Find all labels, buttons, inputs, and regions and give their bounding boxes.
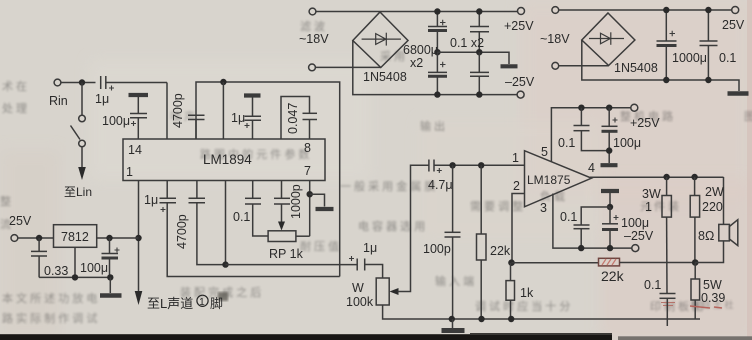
terminal AC1 bottom bbox=[309, 64, 316, 71]
arrow W wiper bbox=[390, 288, 399, 295]
node mid rail left bbox=[434, 49, 440, 55]
svg-text:+25V: +25V bbox=[504, 19, 534, 33]
capacitor C23 100u pos rail bbox=[608, 108, 610, 126]
wire ground to C4 bbox=[252, 98, 254, 117]
node output R4 tap bbox=[663, 174, 669, 180]
svg-text:22k: 22k bbox=[601, 268, 625, 284]
node 100p gnd bbox=[449, 316, 455, 322]
node 100p tap bbox=[449, 162, 455, 168]
terminal Rin bbox=[54, 79, 61, 86]
resistor R3 22k feedback bbox=[599, 258, 620, 266]
capacitor C7 4700p bbox=[189, 197, 206, 199]
terminal AC2 bottom bbox=[552, 62, 559, 69]
capacitor C20 4.7u bbox=[428, 160, 430, 172]
svg-text:0.1: 0.1 bbox=[644, 278, 661, 292]
switch S1 contact bottom bbox=[79, 140, 86, 147]
capacitor C1 1u input bbox=[100, 76, 102, 89]
capacitor C18 1000u bbox=[665, 10, 667, 41]
svg-text:1N5408: 1N5408 bbox=[614, 61, 658, 75]
svg-text:100p: 100p bbox=[423, 242, 451, 256]
wire pin7 to ground bbox=[310, 194, 325, 206]
svg-text:4.7μ: 4.7μ bbox=[428, 178, 453, 192]
node plus rail c16 bbox=[476, 8, 482, 14]
arrow RP wiper bbox=[278, 222, 285, 231]
wire pin 5 to +rail bbox=[551, 108, 630, 162]
svg-text:4700p: 4700p bbox=[175, 214, 189, 249]
svg-text:W: W bbox=[352, 281, 364, 295]
svg-text:100μ: 100μ bbox=[621, 216, 649, 230]
svg-text:至L声道: 至L声道 bbox=[147, 296, 193, 311]
svg-text:0.047: 0.047 bbox=[286, 103, 300, 134]
svg-text:25V: 25V bbox=[9, 214, 32, 228]
wire 25V to 7812 bbox=[18, 237, 54, 239]
capacitor C11 100u bbox=[109, 238, 111, 253]
svg-text:~18V: ~18V bbox=[540, 32, 570, 46]
wire down to ground bbox=[109, 277, 111, 293]
svg-text:1N5408: 1N5408 bbox=[363, 70, 407, 84]
wire top rail 2 (pins 12/11, to output loop) bbox=[196, 82, 340, 277]
node 100u pos tap bbox=[606, 105, 612, 111]
wire pin 5 to C8 bbox=[252, 181, 254, 199]
wire plus rail supply2 bbox=[559, 9, 732, 11]
node minus rail c15 bbox=[434, 91, 440, 97]
node input junction bbox=[79, 79, 85, 85]
red underline marks 0.39 bbox=[690, 306, 722, 308]
svg-text:整: 整 bbox=[0, 194, 11, 208]
node speaker fb junction bbox=[692, 259, 699, 266]
node minus rail c17 bbox=[476, 91, 482, 97]
svg-text:处 理: 处 理 bbox=[2, 102, 27, 115]
wire C9 to wiper arrow bbox=[281, 204, 283, 222]
node 0.1 neg tap bbox=[578, 245, 584, 251]
node c18 top bbox=[663, 7, 669, 13]
svg-text:输 入 端: 输 入 端 bbox=[435, 274, 474, 288]
capacitor C16 0.1 upper bbox=[478, 12, 480, 27]
wire C4 to pin 10 bbox=[252, 120, 254, 139]
svg-text:14: 14 bbox=[128, 143, 142, 157]
terminal -25V bbox=[517, 91, 524, 98]
svg-text:–25V: –25V bbox=[505, 75, 535, 89]
svg-text:3: 3 bbox=[540, 201, 547, 215]
wire C8 to RP left bbox=[253, 204, 268, 236]
svg-text:7812: 7812 bbox=[61, 230, 89, 244]
wire pin 2 jog bbox=[512, 194, 525, 263]
terminal AC1 top ~18V bbox=[309, 8, 316, 15]
node pin7 junction bbox=[307, 191, 313, 197]
svg-text:220: 220 bbox=[702, 200, 723, 214]
op-amp U3 LM1875 body bbox=[525, 151, 592, 207]
wire ground to C2 bbox=[137, 97, 139, 113]
wire pin7 to RP right bbox=[296, 235, 310, 237]
node 100u neg tap bbox=[607, 245, 613, 251]
svg-text:LM1875: LM1875 bbox=[527, 173, 571, 187]
resistor R4 3W 1 bbox=[666, 177, 668, 196]
capacitor C14 6800u upper bbox=[436, 12, 438, 27]
node 100u junction bbox=[106, 235, 112, 241]
wire C2 to pin 14 bbox=[137, 118, 139, 139]
wire AC bottom to bridge bbox=[315, 66, 380, 68]
node fb junction bbox=[508, 259, 515, 266]
node output R5 tap bbox=[691, 174, 697, 180]
svg-text:1: 1 bbox=[126, 165, 133, 179]
wire C6 to bottom loop rail bbox=[167, 203, 340, 277]
wire output rail to C13 bbox=[226, 264, 358, 266]
wire cap to pin13 drop bbox=[106, 82, 167, 84]
wire Rin to junction bbox=[61, 82, 96, 84]
wire C3 to pin 12 bbox=[195, 120, 197, 140]
wire drop to pin 13 bbox=[166, 83, 168, 140]
svg-text:5W: 5W bbox=[703, 278, 722, 292]
capacitor C9 1000p bbox=[274, 197, 290, 199]
resistor R5 2W 220 bbox=[694, 177, 696, 196]
bridge rectifier D2 1N5408 bbox=[582, 13, 635, 66]
capacitor C19 0.1 bbox=[707, 10, 709, 41]
node C11 gnd bbox=[107, 274, 113, 280]
svg-text:1000p: 1000p bbox=[289, 184, 303, 219]
wire bridge2 left corner to gnd rail bbox=[582, 40, 739, 91]
svg-text:x2: x2 bbox=[410, 56, 423, 70]
capacitor C5 0.047 loop pins 9-8 bbox=[281, 97, 310, 140]
node c18 bottom bbox=[663, 77, 669, 83]
svg-text:4: 4 bbox=[588, 161, 595, 175]
svg-text:+25V: +25V bbox=[630, 116, 660, 130]
ground main bbox=[442, 328, 465, 333]
capacitor C2 100u bbox=[130, 113, 147, 115]
potentiometer W 100k body bbox=[376, 278, 389, 305]
ground 7812 bbox=[100, 293, 122, 298]
wire junction to pin 11 bbox=[222, 82, 224, 139]
regulator U2 7812 body bbox=[54, 225, 97, 248]
node 0.1 pos tap bbox=[578, 105, 584, 111]
svg-text:8Ω: 8Ω bbox=[698, 229, 714, 243]
capacitor C24 0.1 neg rail bbox=[581, 207, 610, 225]
svg-text:0.33: 0.33 bbox=[44, 264, 68, 278]
svg-text:0.1: 0.1 bbox=[719, 51, 736, 65]
node pin1/7812 junction bbox=[135, 235, 141, 241]
ground at pin7 bbox=[316, 207, 334, 211]
capacitor C15 6800u lower bbox=[440, 62, 446, 68]
capacitor C21 100p bbox=[452, 165, 454, 232]
arrow to Lin bbox=[78, 167, 86, 180]
svg-text:耐 压 值: 耐 压 值 bbox=[300, 240, 339, 253]
capacitor C22 0.1 pos rail bbox=[580, 108, 582, 126]
wire speaker top lead bbox=[723, 177, 725, 224]
wire pin 7 down bbox=[309, 181, 311, 237]
svg-text:1: 1 bbox=[645, 200, 652, 214]
svg-text:7: 7 bbox=[304, 164, 311, 178]
capacitor C10 0.33 bbox=[38, 238, 40, 251]
wire 22k fb to speaker node bbox=[620, 262, 696, 264]
svg-text:1: 1 bbox=[199, 296, 205, 308]
capacitor C26 0.1 zobel bbox=[660, 293, 676, 295]
svg-text:0.1 x2: 0.1 x2 bbox=[450, 36, 484, 50]
svg-text:–25V: –25V bbox=[624, 229, 654, 243]
wire pin 1 down to L-channel arrow bbox=[138, 181, 140, 293]
svg-text:输 出: 输 出 bbox=[420, 119, 445, 133]
svg-text:2: 2 bbox=[513, 179, 520, 193]
node 22k gnd bbox=[478, 316, 484, 322]
wire switch to arrow bbox=[81, 147, 83, 168]
switch S1 lever bbox=[71, 126, 81, 140]
wire pin 3 to C7 bbox=[196, 181, 198, 199]
svg-text:0.39: 0.39 bbox=[701, 291, 725, 305]
ground above C4 bbox=[244, 93, 261, 97]
svg-text:100k: 100k bbox=[346, 295, 374, 309]
wire bridge left corner to minus rail bbox=[353, 41, 517, 95]
ground above C2 bbox=[129, 93, 149, 97]
wire pin 4 down bbox=[225, 181, 227, 265]
svg-text:1μ: 1μ bbox=[144, 193, 158, 207]
wire mid rail to ground bbox=[437, 52, 509, 64]
node mid rail right bbox=[476, 49, 482, 55]
node 0.33 junction bbox=[36, 235, 42, 241]
svg-text:调 试 时 应 当 十 分: 调 试 时 应 当 十 分 bbox=[475, 299, 570, 313]
capacitor C17 0.1 lower bbox=[478, 52, 480, 72]
potentiometer RP 1k body bbox=[268, 231, 296, 242]
svg-text:1μ: 1μ bbox=[231, 111, 245, 125]
black scan band bottom left bbox=[0, 334, 612, 340]
svg-text:~18V: ~18V bbox=[299, 32, 329, 46]
wire 4.7u to pin1 bbox=[434, 164, 525, 166]
wire wiper to 4.7u bbox=[398, 165, 429, 291]
wire pin 3 to -rail bbox=[553, 194, 632, 249]
terminal +25V bbox=[518, 8, 525, 15]
arrow to L channel pin1 bbox=[135, 291, 143, 305]
ground supply2 bbox=[728, 91, 749, 96]
svg-text:6800μ: 6800μ bbox=[403, 43, 438, 57]
svg-text:1: 1 bbox=[512, 151, 519, 165]
svg-text:1k: 1k bbox=[520, 286, 534, 300]
bridge rectifier D1 1N5408 bbox=[353, 12, 408, 68]
svg-text:22k: 22k bbox=[490, 244, 511, 258]
node 7812 gnd bbox=[72, 274, 78, 280]
terminal AC2 top ~18V bbox=[552, 7, 559, 14]
wire C13 to pot W bbox=[365, 265, 383, 279]
svg-text:RP 1k: RP 1k bbox=[269, 247, 304, 261]
wire plus rail supply1 bbox=[316, 11, 518, 13]
resistor R6 5W 0.39 bbox=[694, 263, 696, 280]
capacitor C4 1u bbox=[245, 115, 262, 117]
wire gnd stub bbox=[452, 319, 454, 328]
node pin4 output junction bbox=[222, 261, 228, 267]
svg-text:3W: 3W bbox=[642, 187, 661, 201]
wire pot W bottom to gnd rail bbox=[383, 305, 700, 319]
ground supply1 bbox=[501, 64, 518, 68]
resistor R2 1k bbox=[510, 263, 512, 281]
terminal 25V input bbox=[11, 235, 18, 242]
svg-text:5: 5 bbox=[541, 145, 548, 159]
terminal -25V amp bbox=[632, 245, 639, 252]
terminal 25V out bbox=[732, 7, 739, 14]
node 22k tap bbox=[478, 162, 484, 168]
ground pos rail bbox=[601, 163, 618, 167]
svg-text:100μ: 100μ bbox=[613, 136, 641, 150]
svg-text:100μ: 100μ bbox=[102, 114, 130, 128]
node plus rail c14 bbox=[434, 8, 440, 14]
node 1k gnd bbox=[508, 316, 514, 322]
ground neg rail bbox=[601, 189, 619, 193]
switch S1 contact top bbox=[79, 115, 86, 122]
svg-text:需 要 调 整: 需 要 调 整 bbox=[470, 199, 523, 213]
svg-text:术 在: 术 在 bbox=[2, 80, 27, 93]
svg-text:电 容 器 选 用: 电 容 器 选 用 bbox=[358, 219, 425, 233]
svg-text:Rin: Rin bbox=[49, 94, 68, 108]
capacitor C25 100u neg rail bbox=[609, 207, 611, 224]
svg-text:LM1894: LM1894 bbox=[203, 152, 252, 167]
svg-text:1μ: 1μ bbox=[363, 241, 377, 255]
svg-text:0.1: 0.1 bbox=[560, 210, 577, 224]
node c19 bottom bbox=[705, 77, 711, 83]
capacitor C13 1u output coupling bbox=[349, 256, 354, 261]
wire ground rail 7812 bbox=[39, 276, 110, 278]
svg-text:至Lin: 至Lin bbox=[64, 185, 92, 199]
op-amp U1 LM1894 body bbox=[123, 139, 325, 181]
svg-text:1μ: 1μ bbox=[95, 92, 109, 106]
svg-text:0.1: 0.1 bbox=[558, 136, 575, 150]
svg-text:4700p: 4700p bbox=[171, 93, 185, 128]
wire pin 2 to C6 bbox=[166, 181, 168, 199]
svg-text:一 般 采 用 金 属 膜: 一 般 采 用 金 属 膜 bbox=[340, 179, 435, 193]
wire output pin 4 bbox=[590, 176, 724, 178]
node rail2 junction bbox=[220, 79, 226, 85]
svg-text:0.1: 0.1 bbox=[233, 210, 250, 224]
wire AC2 bottom to bridge bbox=[559, 65, 609, 67]
wire 7812 out to pin1 node bbox=[97, 237, 139, 239]
node pos decouple bbox=[606, 147, 612, 153]
wire speaker bottom lead bbox=[695, 241, 723, 263]
dark smudge left-mid bleed bbox=[218, 292, 228, 301]
wire gnd to neg decouple node bbox=[609, 193, 611, 207]
svg-text:脚: 脚 bbox=[210, 296, 223, 311]
capacitor C8 0.1 bbox=[245, 197, 261, 199]
terminal +25V amp bbox=[631, 104, 638, 111]
capacitor C6 1u bbox=[160, 197, 177, 199]
wire 7812 gnd lead bbox=[74, 247, 76, 277]
node c19 top bbox=[705, 7, 711, 13]
wire C7 to node rail bbox=[197, 203, 226, 265]
svg-text:2W: 2W bbox=[705, 185, 724, 199]
gray scan band bottom right bbox=[618, 336, 752, 340]
svg-text:图: 图 bbox=[744, 110, 752, 123]
svg-text:100μ: 100μ bbox=[80, 261, 108, 275]
node L channel circled 1 bbox=[197, 295, 208, 306]
svg-text:本 文 所 述 功 放 电: 本 文 所 述 功 放 电 bbox=[2, 291, 97, 305]
capacitor C3 4700p bbox=[188, 114, 205, 116]
wire fb to 22k bbox=[512, 262, 599, 264]
svg-text:8: 8 bbox=[304, 141, 311, 155]
resistor R1 22k input bias bbox=[480, 165, 482, 234]
svg-text:路 实 际 制 作 调 试: 路 实 际 制 作 调 试 bbox=[2, 311, 97, 325]
wire junction down to switch bbox=[81, 83, 83, 116]
wire pin 6 to C9 bbox=[281, 181, 283, 199]
loudspeaker 8ohm bbox=[719, 224, 730, 241]
svg-text:25V: 25V bbox=[722, 18, 745, 32]
node neg decouple bbox=[607, 204, 613, 210]
svg-text:1000μ: 1000μ bbox=[672, 51, 707, 65]
